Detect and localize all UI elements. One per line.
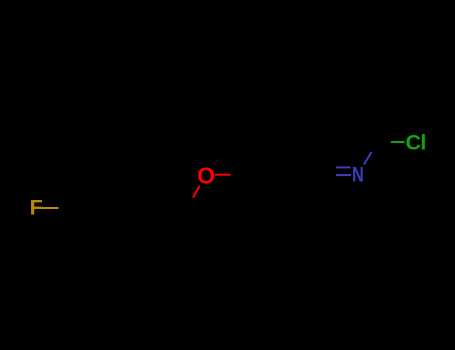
bond N-C2 (nitrogen half, diagonal) bbox=[364, 152, 372, 165]
bond C=N upper line (nitrogen half) bbox=[336, 166, 351, 168]
bond F-C (fluorine half) bbox=[42, 207, 59, 209]
bond O-CH2 (oxygen half, diagonal) bbox=[193, 186, 200, 198]
svg-text:N: N bbox=[352, 164, 364, 188]
bond O-ring (oxygen half, horizontal) bbox=[215, 174, 231, 176]
svg-text:O: O bbox=[197, 163, 215, 189]
svg-text:Cl: Cl bbox=[406, 131, 426, 155]
svg-text:F: F bbox=[30, 196, 43, 220]
bond C-Cl (chlorine half) bbox=[391, 141, 405, 143]
bond C=N lower line (nitrogen half) bbox=[336, 174, 351, 176]
